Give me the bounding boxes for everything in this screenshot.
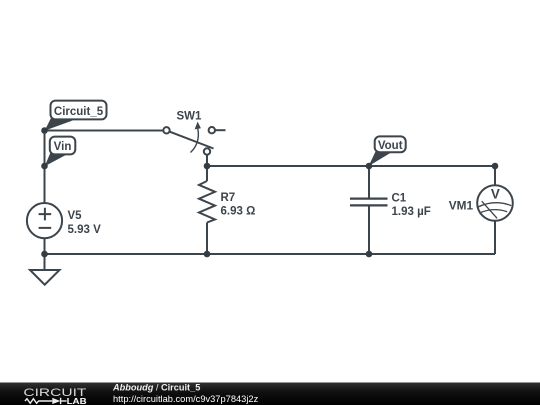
- ground: [30, 254, 60, 285]
- svg-text:V5: V5: [68, 210, 83, 222]
- node SW1 pole junction dot: [204, 163, 211, 170]
- capacitor C1: [350, 193, 431, 219]
- resistor R7: [199, 181, 255, 223]
- wire top horizontal (node Vin to SW1 left terminal): [45, 130, 164, 132]
- node VM1 top junction dot: [492, 163, 499, 170]
- wire SW1 right terminal stub: [215, 129, 225, 131]
- svg-text:LAB: LAB: [67, 397, 87, 405]
- wire SW1 pole down to node: [206, 155, 208, 166]
- wire V5 bottom lead: [44, 239, 46, 255]
- wire VM1 top lead: [494, 166, 496, 185]
- svg-text:C1: C1: [392, 193, 407, 205]
- svg-text:6.93 Ω: 6.93 Ω: [221, 206, 256, 218]
- voltmeter VM1: [449, 185, 513, 221]
- node ground-left junction dot: [41, 251, 48, 258]
- svg-text:1.93 µF: 1.93 µF: [392, 206, 431, 218]
- svg-text:V: V: [491, 187, 500, 202]
- wire vertical Vin node down to V5 top: [44, 131, 46, 204]
- node Vout junction dot: [366, 163, 373, 170]
- wire horizontal net Vout (y=166): [207, 165, 495, 167]
- wire VM1 bottom lead: [494, 221, 496, 254]
- svg-text:Vin: Vin: [54, 141, 72, 153]
- flag label Vout: [369, 136, 406, 166]
- node Vin lower junction dot: [41, 163, 48, 170]
- flag label Vin: [45, 137, 76, 167]
- svg-text:Abboudg / Circuit_5: Abboudg / Circuit_5: [112, 383, 200, 393]
- svg-text:Vout: Vout: [378, 140, 403, 152]
- wire bottom ground net: [45, 253, 496, 255]
- wire R7 bottom lead: [206, 223, 208, 255]
- svg-text:5.93 V: 5.93 V: [68, 224, 102, 236]
- logo resistor-diode glyph: [25, 398, 67, 404]
- switch SW1: [163, 110, 215, 154]
- svg-text:Circuit_5: Circuit_5: [54, 106, 104, 118]
- wire C1 top lead: [368, 166, 370, 198]
- flag label Circuit_5: [45, 101, 107, 131]
- voltage source V5: [27, 203, 101, 238]
- node R7 bottom junction dot: [204, 251, 211, 258]
- footer bar: [0, 383, 540, 405]
- node Vin junction dot: [41, 127, 48, 134]
- svg-text:http://circuitlab.com/c9v37p78: http://circuitlab.com/c9v37p7843j2z: [113, 394, 259, 404]
- svg-text:VM1: VM1: [449, 198, 474, 212]
- wire R7 top lead: [206, 166, 208, 181]
- svg-text:SW1: SW1: [177, 110, 203, 122]
- svg-text:R7: R7: [221, 192, 236, 204]
- node C1 bottom junction dot: [366, 251, 373, 258]
- wire C1 bottom lead: [368, 206, 370, 254]
